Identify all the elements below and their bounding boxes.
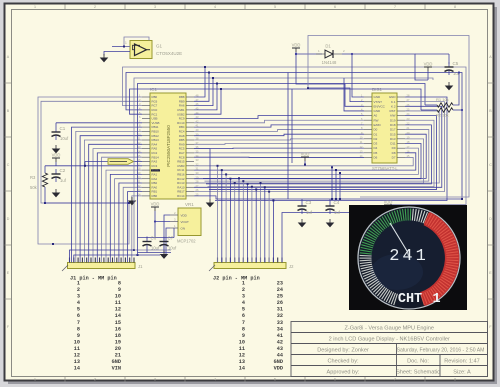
svg-text:VDD: VDD (274, 366, 283, 372)
capacitor C2 1uf (52, 168, 67, 183)
svg-text:42: 42 (277, 339, 283, 345)
svg-text:44: 44 (277, 353, 283, 359)
connector J1 (68, 263, 136, 269)
svg-text:2: 2 (242, 287, 245, 293)
ground - below C2 (53, 189, 59, 197)
svg-text:VR1: VR1 (185, 202, 194, 207)
svg-text:1: 1 (77, 281, 80, 287)
svg-text:15: 15 (115, 320, 121, 326)
wire - left VDD rail (55, 162, 57, 166)
svg-text:EN/VCC: EN/VCC (374, 104, 386, 108)
svg-text:PIC2550AT18F2550: PIC2550AT18F2550 (166, 125, 171, 167)
svg-text:10uf: 10uf (60, 136, 69, 141)
svg-text:D0: D0 (374, 128, 378, 132)
svg-text:11: 11 (74, 346, 80, 352)
svg-text:13: 13 (74, 359, 80, 365)
svg-text:8: 8 (118, 281, 121, 287)
svg-text:VOUT: VOUT (181, 220, 190, 224)
svg-text:19: 19 (115, 339, 121, 345)
power flag VDD - mid sheet at display bus (301, 152, 310, 162)
svg-text:6: 6 (242, 313, 245, 319)
svg-text:2: 2 (94, 378, 96, 382)
ground - IC1 VSS (129, 197, 135, 205)
svg-text:RW: RW (374, 118, 379, 122)
svg-text:50k: 50k (30, 185, 38, 190)
wire - IC1 upper right pins rise to top bus (194, 67, 205, 97)
svg-text:34: 34 (277, 326, 283, 332)
svg-text:D8: D8 (392, 151, 396, 155)
svg-text:VDD: VDD (384, 200, 393, 205)
power flag VDD - top (292, 43, 301, 53)
svg-text:VIN: VIN (112, 366, 121, 372)
svg-text:RST: RST (390, 109, 396, 113)
ground - regulator (161, 251, 167, 259)
svg-text:14: 14 (239, 366, 245, 372)
power flag VDD - at VR1 (151, 202, 160, 212)
svg-text:J2 pin - MM pin: J2 pin - MM pin (213, 276, 260, 282)
svg-text:1: 1 (34, 378, 36, 382)
svg-text:11: 11 (239, 346, 245, 352)
svg-text:D2: D2 (374, 137, 378, 141)
svg-text:D17: D17 (390, 128, 396, 132)
svg-text:VDD: VDD (151, 202, 160, 207)
wire - fuse row to IC1 (85, 161, 108, 163)
svg-text:4: 4 (77, 300, 80, 306)
VR1 pin stubs (170, 215, 178, 228)
svg-text:4: 4 (242, 300, 245, 306)
wire - VDD rail to C1 (56, 122, 142, 124)
svg-text:20: 20 (115, 346, 121, 352)
wire - diode cathode junction (342, 53, 352, 55)
svg-text:1: 1 (432, 292, 440, 307)
svg-text:D1: D1 (325, 44, 331, 49)
ground - below C3 (299, 219, 305, 227)
svg-text:R1 10k: R1 10k (436, 97, 449, 102)
wire - oscillator enable to ground (112, 46, 130, 48)
svg-text:GND: GND (374, 95, 382, 99)
svg-text:9: 9 (118, 287, 121, 293)
svg-text:GND: GND (112, 359, 121, 365)
junction dots - top bus taps (204, 66, 222, 90)
svg-text:1uf: 1uf (334, 210, 341, 215)
svg-text:26: 26 (277, 300, 283, 306)
svg-text:C6: C6 (151, 236, 157, 241)
svg-text:Z-Gar8i - Versa Gauge MPU En: Z-Gar8i - Versa Gauge MPU Engine (344, 326, 434, 332)
svg-text:Saturday, February 20, 2016 -: Saturday, February 20, 2016 - 2:50 AM (397, 348, 485, 354)
svg-text:8: 8 (77, 326, 80, 332)
svg-text:A0: A0 (374, 114, 378, 118)
svg-text:4: 4 (214, 378, 216, 382)
svg-text:D7: D7 (392, 156, 396, 160)
connector J2 (214, 263, 286, 269)
svg-text:3: 3 (154, 5, 156, 9)
svg-text:C: C (7, 163, 10, 167)
wire bus - IC1 port A/B to connector J1 (72, 127, 143, 262)
svg-text:D3: D3 (374, 142, 378, 146)
svg-text:Revision: 1:47: Revision: 1:47 (444, 359, 479, 365)
svg-text:10uf: 10uf (151, 246, 160, 251)
ground - below C4 (327, 219, 333, 227)
wire - VDD to diode D1 (296, 52, 322, 54)
capacitor C3 1uf (301, 199, 303, 201)
svg-text:D15: D15 (390, 132, 396, 136)
svg-text:6: 6 (334, 5, 336, 9)
svg-text:Doc. No:: Doc. No: (407, 359, 429, 365)
svg-text:D: D (7, 217, 10, 221)
svg-text:CTO5X4U2E: CTO5X4U2E (156, 51, 182, 56)
gauge white lower tick band (360, 255, 398, 305)
svg-text:VDD: VDD (301, 152, 310, 157)
svg-text:Approved by:: Approved by: (327, 370, 360, 376)
svg-text:21: 21 (115, 353, 121, 359)
svg-text:D19: D19 (390, 118, 396, 122)
svg-text:23: 23 (277, 281, 283, 287)
svg-text:RC14: RC14 (177, 194, 185, 198)
svg-text:C4: C4 (334, 200, 340, 205)
svg-text:RB6: RB6 (152, 194, 158, 198)
svg-text:VDD: VDD (424, 62, 433, 67)
svg-text:2: 2 (94, 5, 96, 9)
svg-text:24: 24 (277, 287, 283, 293)
svg-text:7: 7 (394, 5, 396, 9)
svg-text:14: 14 (74, 366, 80, 372)
wire - oscillator feedback loop (124, 37, 149, 47)
svg-text:2: 2 (77, 287, 80, 293)
oscillator G1 CTO5X4U2E (125, 41, 182, 59)
svg-text:J2: J2 (289, 264, 294, 269)
svg-text:ON: ON (181, 227, 186, 231)
svg-text:D18: D18 (390, 123, 396, 127)
wire - R3 bottom to ground rail (45, 187, 132, 203)
fuse F1 (108, 159, 134, 165)
power flag VDD - at C5 (424, 62, 433, 72)
wire - DIS1 upper left pins (352, 54, 364, 97)
svg-text:31: 31 (277, 307, 283, 313)
diode D1 1N4148 (316, 44, 345, 66)
svg-text:1: 1 (125, 41, 127, 45)
capacitor C4 1uf (329, 199, 331, 201)
wire - caps C6 C7 rail (138, 237, 175, 239)
DIS1 pin stubs and labels (364, 97, 405, 157)
gauge green tick band (360, 209, 411, 255)
wire - C6 C7 to ground rail (138, 252, 172, 254)
wire - J1 power pins from regulator rails (70, 250, 135, 263)
svg-text:1uf: 1uf (306, 210, 313, 215)
svg-text:C5: C5 (453, 61, 459, 66)
capacitor C1 10uf (52, 126, 69, 141)
svg-text:D5: D5 (374, 151, 378, 155)
capacitor C7 10uf (163, 238, 165, 239)
svg-text:241: 241 (389, 247, 429, 266)
resistor R3 50k (42, 173, 47, 187)
wire - C2 rail to IC1 (45, 165, 142, 167)
wire - VDD to VR1 VOUT (155, 211, 170, 222)
svg-text:10: 10 (239, 339, 245, 345)
svg-text:43: 43 (277, 346, 283, 352)
wire - IC1 pins 1 2 long rails to far left (38, 97, 142, 244)
svg-text:D9: D9 (392, 146, 396, 150)
title block (291, 322, 488, 377)
wire - J2 VDD pin to power flag (282, 213, 388, 263)
gauge needle (390, 223, 407, 251)
svg-text:D: D (489, 217, 492, 221)
svg-text:C1: C1 (60, 126, 66, 131)
svg-text:12: 12 (115, 307, 121, 313)
wire - top right loop from diode (308, 36, 469, 198)
svg-text:D13: D13 (390, 137, 396, 141)
J1 pin map table (70, 276, 121, 372)
svg-text:25: 25 (277, 294, 283, 300)
gauge red band (420, 212, 459, 306)
svg-text:32: 32 (277, 313, 283, 319)
svg-text:6: 6 (77, 313, 80, 319)
svg-text:7: 7 (242, 320, 245, 326)
svg-text:J1: J1 (138, 264, 143, 269)
capacitor C6 10uf (146, 238, 148, 239)
svg-text:GND: GND (389, 95, 397, 99)
IC1 pin stubs and labels (142, 97, 194, 196)
ground - oscillator (101, 54, 107, 62)
svg-text:C7: C7 (168, 236, 174, 241)
svg-text:D11: D11 (390, 142, 396, 146)
svg-text:1: 1 (242, 281, 245, 287)
svg-text:E/RD: E/RD (374, 123, 382, 127)
wire - VDD rail to bypass caps (194, 196, 462, 199)
wire - supply rail to C5 (352, 54, 428, 80)
svg-text:3: 3 (242, 294, 245, 300)
svg-text:5: 5 (242, 307, 245, 313)
svg-text:D4: D4 (374, 146, 378, 150)
svg-text:33: 33 (277, 320, 283, 326)
svg-text:7: 7 (394, 378, 396, 382)
svg-text:9: 9 (77, 333, 80, 339)
svg-text:4: 4 (214, 5, 216, 9)
svg-text:D1: D1 (374, 132, 378, 136)
wire bus - IC1 data bus to DIS1 (194, 116, 364, 119)
svg-text:C: C (489, 163, 492, 167)
svg-text:IC1: IC1 (150, 87, 158, 92)
svg-text:GND: GND (274, 359, 283, 365)
voltage regulator VR1 MCP1702 (174, 202, 201, 244)
svg-text:Sheet: Schematic: Sheet: Schematic (396, 370, 440, 376)
wire - crossing verticals from top bus (287, 73, 289, 200)
svg-text:5: 5 (77, 307, 80, 313)
svg-text:11: 11 (115, 300, 121, 306)
svg-text:Designed by: Zonker: Designed by: Zonker (317, 348, 369, 354)
svg-text:12: 12 (239, 353, 245, 359)
svg-text:C2: C2 (60, 168, 66, 173)
capacitor C5 1uf (445, 61, 460, 76)
microcontroller IC1 PIC2550AT18F2550 (150, 87, 186, 199)
svg-text:VDD: VDD (52, 153, 61, 158)
svg-text:K.2: K.2 (391, 104, 396, 108)
svg-text:10: 10 (74, 339, 80, 345)
svg-text:5: 5 (274, 5, 276, 9)
svg-text:1N4148: 1N4148 (322, 60, 337, 65)
J2 pin map table (213, 276, 283, 372)
svg-text:VDD: VDD (181, 214, 188, 218)
svg-text:13: 13 (239, 359, 245, 365)
power flag VDD - near caps (384, 200, 393, 210)
power flag VDD - left rail (52, 153, 61, 163)
junction dots - J2 bus taps (217, 165, 275, 202)
svg-text:14: 14 (115, 313, 121, 319)
wire - band to bypass rail verticals (331, 167, 333, 199)
svg-text:3: 3 (154, 378, 156, 382)
IC1 highlighted VCAP pin marker (151, 169, 160, 171)
svg-text:3: 3 (77, 294, 80, 300)
svg-text:G1: G1 (156, 44, 163, 49)
svg-text:R2 10k: R2 10k (436, 113, 449, 118)
photo - CHT gauge display (349, 205, 467, 310)
svg-text:D6: D6 (374, 156, 378, 160)
svg-text:1: 1 (34, 5, 36, 9)
wire bus - DIS1 segment lines wrap under display to connector J2 (215, 97, 447, 201)
svg-text:10uf: 10uf (168, 246, 177, 251)
svg-text:Checked by:: Checked by: (327, 359, 359, 365)
svg-text:16: 16 (115, 326, 121, 332)
svg-text:K.1: K.1 (391, 100, 396, 104)
ground - right of IC1 (207, 199, 213, 207)
svg-text:6: 6 (334, 378, 336, 382)
svg-text:12: 12 (74, 353, 80, 359)
svg-text:CHT: CHT (398, 292, 422, 307)
svg-text:DIS1: DIS1 (372, 87, 383, 92)
svg-text:5: 5 (274, 378, 276, 382)
svg-text:2 inch LCD Gauge Display - NK1: 2 inch LCD Gauge Display - NK16B5V Contr… (329, 337, 450, 343)
svg-text:41: 41 (277, 333, 283, 339)
svg-text:Size: A: Size: A (453, 370, 471, 376)
svg-text:10: 10 (115, 294, 121, 300)
wire - VR1 input from J1 rail (164, 215, 170, 250)
svg-text:18: 18 (115, 333, 121, 339)
svg-text:VDD: VDD (292, 43, 301, 48)
ground - below C1 (53, 145, 59, 153)
svg-text:MCP1702: MCP1702 (177, 239, 196, 244)
svg-text:8: 8 (454, 378, 456, 382)
svg-text:8: 8 (242, 326, 245, 332)
wire bus - five line top bus spanning the sheet (123, 67, 467, 205)
svg-text:VT/ST: VT/ST (374, 100, 383, 104)
display module DIS1 ST7565ATT-L (372, 87, 398, 171)
svg-text:GND: GND (374, 109, 382, 113)
svg-text:1uf: 1uf (60, 178, 67, 183)
svg-text:7: 7 (77, 320, 80, 326)
svg-text:8: 8 (454, 5, 456, 9)
gauge white upper tick (412, 209, 427, 224)
svg-text:A/W: A/W (390, 114, 396, 118)
svg-text:C3: C3 (306, 200, 312, 205)
ground - below C5 (446, 82, 452, 90)
svg-text:R3: R3 (30, 175, 36, 180)
svg-text:9: 9 (242, 333, 245, 339)
